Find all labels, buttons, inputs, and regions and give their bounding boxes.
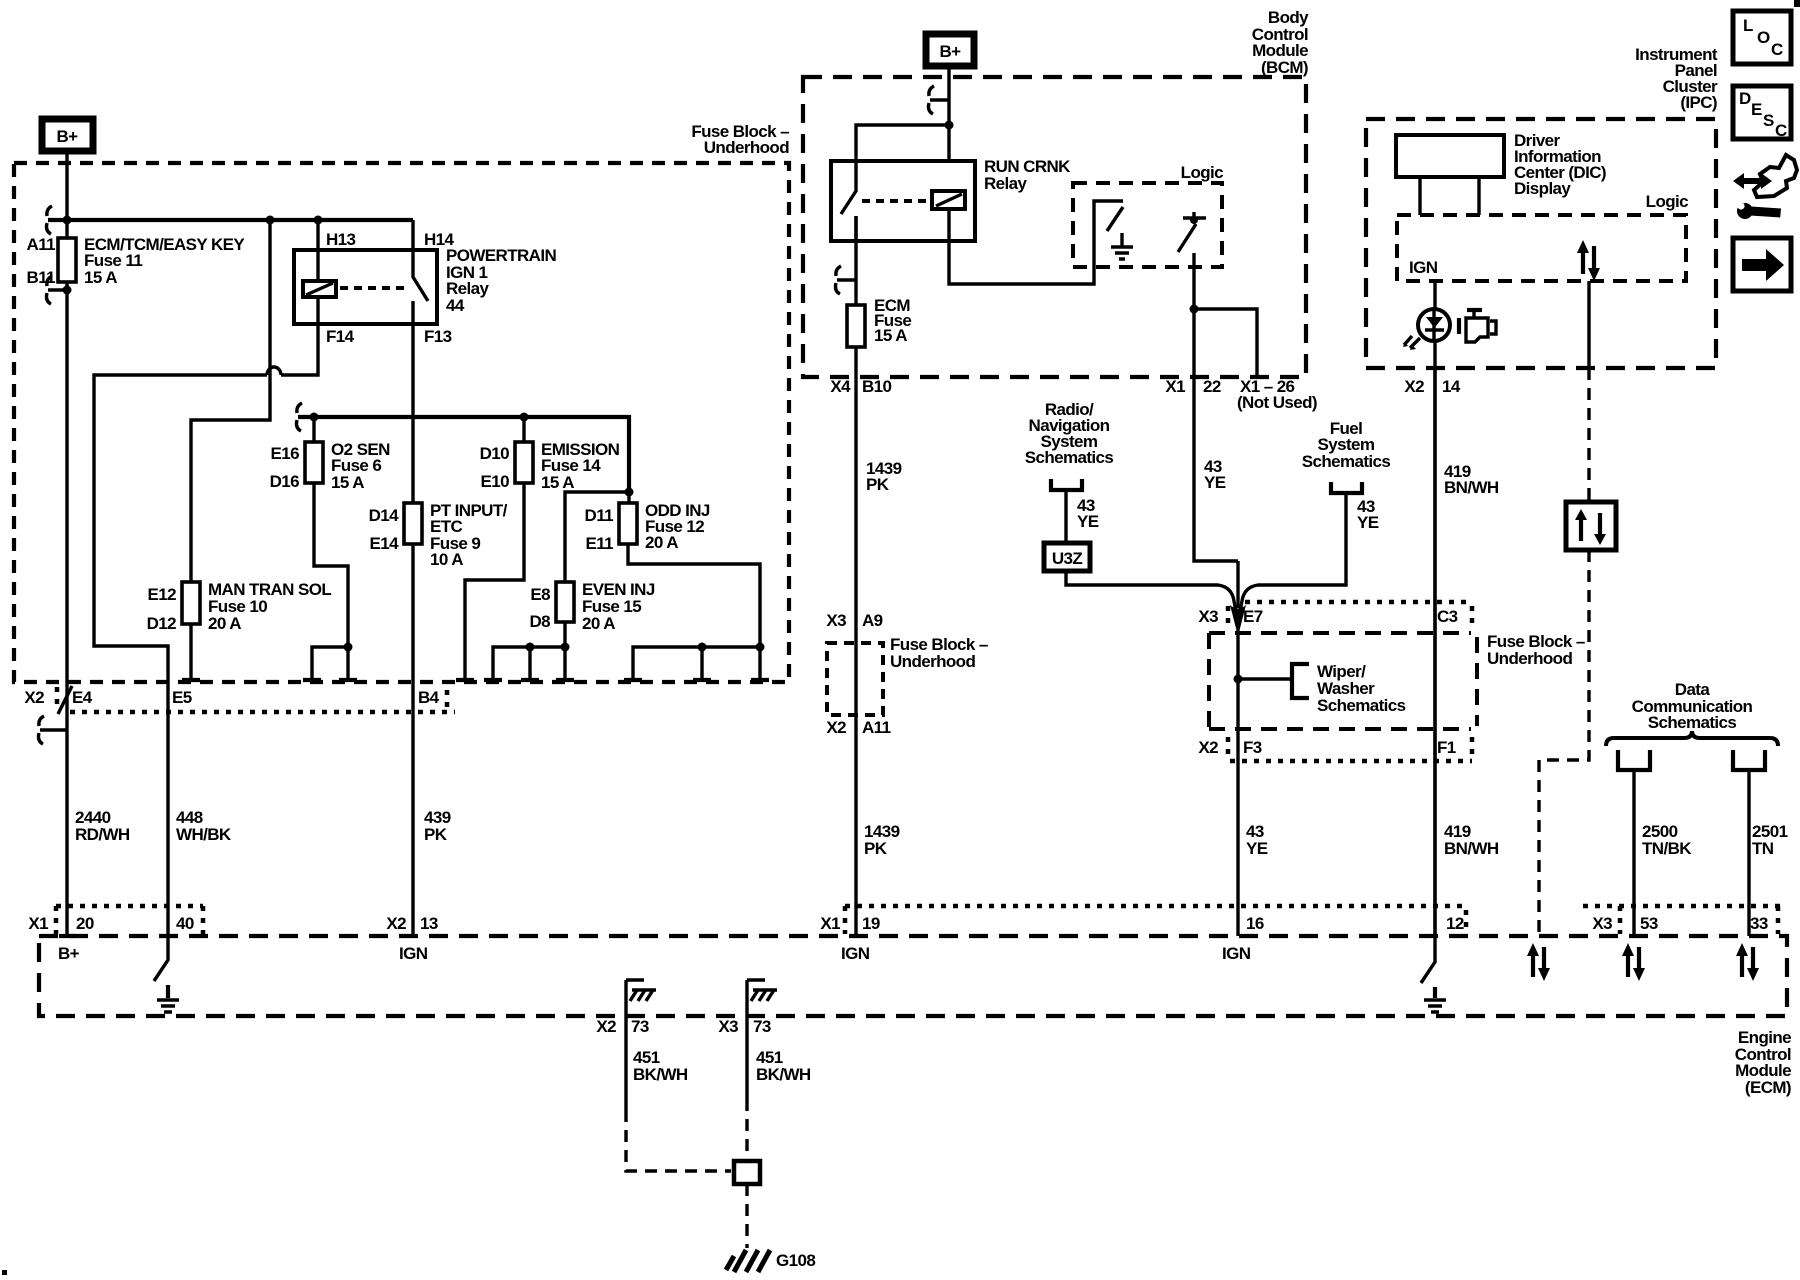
serial arrows IPC logic xyxy=(1583,246,1594,274)
svg-text:15 A: 15 A xyxy=(331,473,364,492)
svg-text:F13: F13 xyxy=(424,327,452,346)
wire MAN TRAN SOL out xyxy=(189,624,192,682)
svg-text:YE: YE xyxy=(1204,473,1226,492)
svg-text:Display: Display xyxy=(1514,179,1571,198)
wire 2501 xyxy=(1747,770,1750,936)
svg-text:E7: E7 xyxy=(1243,607,1263,626)
power symbol B+ (BCM feed) xyxy=(926,34,974,66)
fuse F11 ECM/TCM/EASY KEY xyxy=(58,238,76,282)
svg-text:D16: D16 xyxy=(270,472,300,491)
icon box DESC xyxy=(1733,86,1791,140)
svg-text:TN: TN xyxy=(1752,839,1774,858)
svg-text:Underhood: Underhood xyxy=(890,652,975,671)
node O2 drop xyxy=(344,643,353,652)
wire F13 down xyxy=(411,301,414,503)
wire B10 down to pin 19 xyxy=(854,347,857,936)
node ODD drop a xyxy=(756,643,765,652)
svg-text:Schematics: Schematics xyxy=(1302,452,1391,471)
dashed wire to G108 xyxy=(745,1184,748,1248)
logic box BCM xyxy=(1073,183,1222,267)
wire IGN lamp xyxy=(1433,281,1436,936)
relay switch blade xyxy=(413,250,428,301)
fuse F6 O2 SEN xyxy=(270,417,390,492)
svg-text:Underhood: Underhood xyxy=(704,138,789,157)
wire 419 down to pin 12 xyxy=(1433,368,1436,936)
node wiper branch xyxy=(1234,675,1243,684)
svg-text:D: D xyxy=(1739,89,1751,108)
svg-text:D11: D11 xyxy=(585,506,614,525)
wire wiper branch xyxy=(1238,677,1292,680)
corner mark xyxy=(1794,0,1800,7)
svg-text:20: 20 xyxy=(76,914,94,933)
connector X1 ECM pins 20 40 xyxy=(28,906,203,934)
svg-text:40: 40 xyxy=(176,914,194,933)
node B+ split xyxy=(945,121,954,130)
wire X2 73 stub xyxy=(626,980,644,1110)
svg-text:BN/WH: BN/WH xyxy=(1444,839,1499,858)
wire H14 pin xyxy=(411,220,414,250)
fuse F15 EVEN INJ xyxy=(529,580,654,633)
svg-text:S: S xyxy=(1763,111,1774,130)
svg-text:D12: D12 xyxy=(147,614,177,633)
svg-text:B10: B10 xyxy=(862,377,892,396)
svg-text:YE: YE xyxy=(1246,839,1268,858)
svg-text:B11: B11 xyxy=(27,268,56,287)
svg-text:53: 53 xyxy=(1640,914,1658,933)
chassis ground X2 73 xyxy=(630,990,656,1001)
fuse F10 MAN TRAN SOL xyxy=(147,580,332,633)
fuse ECM 15A xyxy=(847,296,911,347)
icon box arrow xyxy=(1733,238,1791,291)
svg-text:WH/BK: WH/BK xyxy=(176,825,232,844)
svg-text:Logic: Logic xyxy=(1646,192,1688,211)
svg-text:E: E xyxy=(1751,100,1762,119)
connector X2 fuse block row xyxy=(24,687,455,712)
node O2 fuse top xyxy=(310,413,319,422)
wire H13 pin xyxy=(316,220,319,250)
svg-text:X2: X2 xyxy=(24,688,44,707)
svg-text:A11: A11 xyxy=(27,235,56,254)
connector feet on fuse block edge xyxy=(182,678,769,682)
node bus to coil branch xyxy=(266,216,275,225)
svg-text:E11: E11 xyxy=(585,534,613,553)
node ODD drop b xyxy=(698,643,707,652)
svg-text:E4: E4 xyxy=(72,688,93,707)
svg-text:C: C xyxy=(1771,40,1783,59)
svg-text:YE: YE xyxy=(1357,513,1379,532)
wire E-row bus xyxy=(298,417,629,492)
svg-text:X3: X3 xyxy=(826,611,846,630)
fuse F12 ODD INJ xyxy=(585,492,710,553)
indicator lamp MIL xyxy=(1403,309,1450,350)
wire fuse11 to E4 xyxy=(65,282,68,936)
svg-text:X3: X3 xyxy=(1198,607,1218,626)
chassis ground X3 73 xyxy=(751,990,777,1001)
switch to ground pin 40 inside ECM xyxy=(154,936,168,981)
wire X3 73 stub xyxy=(747,980,765,1099)
wire E7 down to pin 16 xyxy=(1236,630,1239,936)
relay link dashed xyxy=(862,199,928,203)
node EVEN drop b xyxy=(526,643,535,652)
svg-text:22: 22 xyxy=(1203,377,1221,396)
svg-text:A9: A9 xyxy=(862,611,883,630)
svg-text:YE: YE xyxy=(1077,512,1099,531)
svg-text:BN/WH: BN/WH xyxy=(1444,478,1499,497)
node EMISSION fuse top xyxy=(520,413,529,422)
svg-text:10 A: 10 A xyxy=(430,550,463,569)
svg-text:(ECM): (ECM) xyxy=(1745,1078,1791,1097)
svg-text:E16: E16 xyxy=(271,444,300,463)
svg-text:PK: PK xyxy=(864,839,888,858)
connector hook E-row xyxy=(297,403,311,431)
svg-text:E14: E14 xyxy=(370,534,400,553)
node ODD feed xyxy=(625,488,634,497)
svg-text:F1: F1 xyxy=(1437,738,1456,757)
svg-text:(Not Used): (Not Used) xyxy=(1237,393,1317,412)
IPC module box xyxy=(1366,119,1716,368)
svg-text:15 A: 15 A xyxy=(541,473,574,492)
node X1-26 branch xyxy=(1190,305,1199,314)
fuse F14E EMISSION xyxy=(480,417,620,492)
wire logic to serial xyxy=(1587,281,1590,368)
wire B+ to fuse 11 xyxy=(65,151,68,238)
serial data arrows pin 53 xyxy=(1628,947,1639,977)
off-page connector 2501 xyxy=(1733,750,1765,770)
svg-text:Schematics: Schematics xyxy=(1648,713,1737,732)
svg-text:Logic: Logic xyxy=(1181,163,1223,182)
power symbol B+ (fuse block feed) xyxy=(42,119,93,151)
svg-text:20 A: 20 A xyxy=(645,533,678,552)
svg-text:IGN: IGN xyxy=(1222,944,1251,963)
wire U3Z to splice arrow xyxy=(1066,571,1236,612)
ground G108 xyxy=(726,1250,770,1272)
off-page connector fuel xyxy=(1331,482,1362,493)
SEC2 xyxy=(803,8,1585,936)
relay coil xyxy=(932,191,965,209)
svg-text:TN/BK: TN/BK xyxy=(1642,839,1692,858)
wire pin 22 xyxy=(1194,253,1238,561)
svg-text:15 A: 15 A xyxy=(84,268,117,287)
serial data arrows pin 33 xyxy=(1742,947,1753,977)
splice S xyxy=(734,1161,760,1184)
svg-text:D10: D10 xyxy=(480,444,510,463)
svg-text:44: 44 xyxy=(446,296,465,315)
merge arrow into E7 xyxy=(1236,561,1239,608)
connector pass-through slash E4 xyxy=(58,686,72,714)
svg-text:O: O xyxy=(1757,28,1770,47)
relay coil xyxy=(303,250,336,324)
svg-text:E12: E12 xyxy=(148,585,177,604)
component U3Z xyxy=(1044,543,1090,571)
ground logic driver xyxy=(1111,233,1133,259)
connector row X2 F3 F1 xyxy=(1198,737,1472,761)
SEC1 xyxy=(28,906,1791,1272)
wire to relay switch xyxy=(856,125,949,161)
icon box LOC xyxy=(1733,11,1791,64)
icon wrench xyxy=(1737,202,1781,219)
svg-text:15 A: 15 A xyxy=(874,326,907,345)
ground pin 12 xyxy=(1433,987,1437,998)
svg-text:X1: X1 xyxy=(1165,377,1185,396)
wire ECM fuse feed xyxy=(854,216,857,305)
wire radio to U3Z xyxy=(1064,490,1067,543)
svg-text:B4: B4 xyxy=(418,688,440,707)
wire fuel to splice arrow xyxy=(1240,493,1346,612)
off-page connector wiper xyxy=(1292,664,1309,698)
ign switch contact xyxy=(1183,212,1206,218)
wire O2 fuse out xyxy=(312,483,348,682)
icon arrows hand xyxy=(1733,155,1797,197)
svg-text:16: 16 xyxy=(1246,914,1264,933)
relay switch lower contact xyxy=(854,216,857,241)
svg-text:B+: B+ xyxy=(939,42,961,61)
svg-text:73: 73 xyxy=(631,1017,649,1036)
svg-text:X2: X2 xyxy=(826,718,846,737)
dashed serial wire from IPC xyxy=(1539,368,1589,936)
svg-text:X3: X3 xyxy=(718,1017,738,1036)
BCM module box xyxy=(803,77,1306,377)
engine icon xyxy=(1459,310,1496,342)
serial data arrows pin dashed xyxy=(1533,947,1544,977)
svg-text:L: L xyxy=(1743,16,1753,35)
svg-text:Underhood: Underhood xyxy=(1487,649,1572,668)
svg-text:(BCM): (BCM) xyxy=(1261,58,1308,77)
svg-text:X3: X3 xyxy=(1592,914,1612,933)
node EVEN drop a xyxy=(561,643,570,652)
brace data comm xyxy=(1606,731,1778,746)
wire B4 down xyxy=(411,544,414,936)
relay link dashed xyxy=(340,286,404,290)
svg-text:Schematics: Schematics xyxy=(1025,448,1114,467)
node bus B+ top xyxy=(63,216,72,225)
svg-text:E8: E8 xyxy=(530,585,550,604)
driver switch blade xyxy=(1107,207,1123,231)
connector X1 ECM pin 19 xyxy=(820,906,1466,934)
svg-text:IGN: IGN xyxy=(841,944,870,963)
ign switch blade xyxy=(1178,224,1196,252)
svg-text:PK: PK xyxy=(866,475,890,494)
svg-text:14: 14 xyxy=(1442,377,1461,396)
svg-text:33: 33 xyxy=(1750,914,1768,933)
svg-text:A11: A11 xyxy=(862,718,891,737)
wire ODD feed to EVEN xyxy=(565,492,629,582)
connector hook B11 xyxy=(47,276,68,304)
wire X1-26 not used xyxy=(1194,309,1257,377)
switch to ground pin 12 inside ECM xyxy=(1421,936,1435,983)
wire bus to relay H pins xyxy=(48,218,413,222)
svg-text:C3: C3 xyxy=(1437,607,1458,626)
svg-text:X2: X2 xyxy=(1404,377,1424,396)
svg-text:20 A: 20 A xyxy=(582,614,615,633)
svg-text:F3: F3 xyxy=(1243,738,1262,757)
svg-text:G108: G108 xyxy=(776,1251,815,1270)
relay K RUN CRNK box xyxy=(831,161,975,241)
ECM module box xyxy=(39,936,1787,1016)
dashed wire 451 right xyxy=(745,1099,748,1161)
svg-text:X2: X2 xyxy=(386,914,406,933)
connector hook B+ BCM xyxy=(929,86,950,114)
wire ODD INJ out xyxy=(628,544,760,682)
svg-text:E5: E5 xyxy=(172,688,192,707)
svg-text:B+: B+ xyxy=(56,127,78,146)
svg-text:H13: H13 xyxy=(326,230,356,249)
logic box IPC xyxy=(1397,215,1686,281)
svg-text:19: 19 xyxy=(862,914,880,933)
svg-text:73: 73 xyxy=(753,1017,771,1036)
svg-text:PK: PK xyxy=(424,825,448,844)
connector row X3 E7 C3 xyxy=(1198,602,1472,628)
svg-text:Relay: Relay xyxy=(984,174,1028,193)
fuse F9 PT INPUT/ETC xyxy=(369,501,508,569)
svg-text:C: C xyxy=(1775,121,1787,140)
off-page connector radio xyxy=(1051,479,1082,490)
svg-text:BK/WH: BK/WH xyxy=(756,1065,811,1084)
Fuse Block - Underhood box xyxy=(14,163,789,682)
wire F14 return xyxy=(94,324,318,936)
svg-text:F14: F14 xyxy=(326,327,355,346)
svg-text:B+: B+ xyxy=(58,944,80,963)
wire 2500 xyxy=(1632,770,1635,936)
connector hook B10 xyxy=(836,266,857,294)
connector hook A11 xyxy=(47,206,61,234)
DIC display box xyxy=(1396,135,1504,177)
svg-text:20 A: 20 A xyxy=(208,614,241,633)
wire EMISSION fuse out xyxy=(465,483,524,682)
fuse block underhood box 2 xyxy=(1209,633,1477,729)
svg-text:IGN: IGN xyxy=(1409,258,1438,277)
connector hook E4 xyxy=(39,716,67,744)
wire hop over branch xyxy=(267,367,281,375)
svg-text:E10: E10 xyxy=(481,472,510,491)
svg-text:IGN: IGN xyxy=(399,944,428,963)
node bus H13 xyxy=(314,216,323,225)
svg-text:D14: D14 xyxy=(369,506,400,525)
svg-text:(IPC): (IPC) xyxy=(1680,93,1717,112)
svg-text:X1: X1 xyxy=(28,914,48,933)
connector X3 A9 fuse block pass xyxy=(826,611,987,737)
wire branch to MAN TRAN SOL fuse xyxy=(191,220,270,582)
relay K relay POWERTRAIN IGN 1 box xyxy=(294,250,437,324)
svg-text:12: 12 xyxy=(1446,914,1464,933)
relay switch blade xyxy=(841,161,856,214)
svg-text:BK/WH: BK/WH xyxy=(633,1065,688,1084)
wire EVEN INJ out xyxy=(493,622,565,682)
pin 20 end foot xyxy=(59,934,75,938)
svg-text:13: 13 xyxy=(420,914,438,933)
dashed wire 451 left xyxy=(626,1110,731,1171)
svg-text:X4: X4 xyxy=(830,377,851,396)
svg-text:X1: X1 xyxy=(820,914,840,933)
wire coil return to logic xyxy=(949,201,1123,284)
svg-text:X2: X2 xyxy=(1198,738,1218,757)
serial link box xyxy=(1566,502,1616,550)
svg-text:Schematics: Schematics xyxy=(1317,696,1406,715)
connector X3 ECM pins 53 33 xyxy=(1583,906,1787,934)
svg-text:X2: X2 xyxy=(596,1017,616,1036)
ground pin 40 xyxy=(166,985,170,998)
off-page connector 2500 xyxy=(1618,750,1650,770)
svg-text:RD/WH: RD/WH xyxy=(75,825,130,844)
node B11 xyxy=(63,286,72,295)
corner dot bottom left xyxy=(2,1270,7,1275)
svg-text:D8: D8 xyxy=(529,612,550,631)
svg-text:U3Z: U3Z xyxy=(1052,549,1083,568)
wire B+ into BCM xyxy=(947,66,950,161)
